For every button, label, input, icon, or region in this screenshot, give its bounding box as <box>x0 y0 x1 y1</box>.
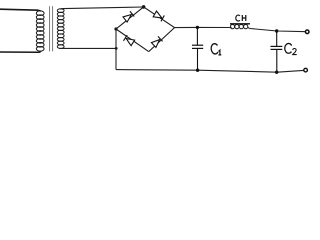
diode D2 top-right <box>153 11 164 21</box>
node C2 top junction <box>275 29 278 32</box>
node bridge top corner junction <box>142 5 146 9</box>
node C2 bottom junction <box>275 71 278 74</box>
transformer primary winding <box>36 10 44 51</box>
node bottom wire junction <box>115 47 118 50</box>
label C1 <box>211 43 219 54</box>
wire top rail bridge to choke <box>175 26 230 28</box>
capacitor C2 <box>271 31 283 72</box>
node C1 top junction <box>196 26 199 29</box>
wire bridge left corner down to bottom rail <box>115 29 117 70</box>
node output terminal bottom <box>304 68 308 72</box>
wire secondary bottom <box>61 47 117 49</box>
bridge diamond edges <box>116 7 175 52</box>
choke core line <box>230 23 250 25</box>
diode D3 bottom-left <box>123 35 134 46</box>
node C1 bottom junction <box>196 69 199 72</box>
capacitor C1 <box>192 27 203 70</box>
wire AC input bottom <box>0 51 41 52</box>
diode D1 top-left <box>123 11 134 22</box>
node output terminal top <box>305 30 309 34</box>
wire top rail choke to right end <box>250 29 307 32</box>
label C2 <box>285 43 292 53</box>
wire secondary top to bridge <box>64 7 144 9</box>
transformer core <box>49 6 51 51</box>
wire AC input top <box>0 9 38 10</box>
diode D4 bottom-right <box>151 36 162 47</box>
node bridge left corner junction <box>114 27 117 30</box>
inductor CH winding <box>230 25 250 29</box>
wire bottom rail <box>116 70 304 73</box>
transformer secondary winding <box>57 9 64 49</box>
label CH <box>236 15 246 21</box>
